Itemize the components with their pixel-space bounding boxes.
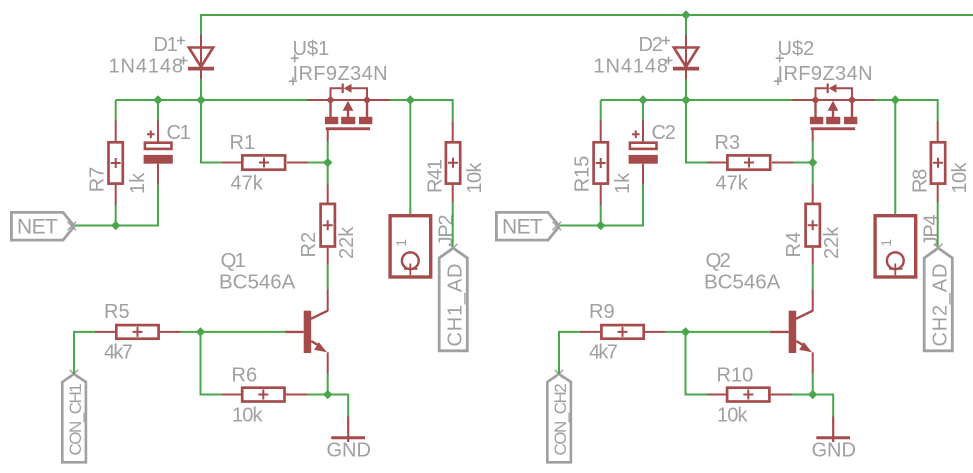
svg-text:1k: 1k xyxy=(612,172,634,194)
ground symbol xyxy=(816,417,850,443)
label D2 value 1N4148 xyxy=(594,56,673,78)
svg-text:10k: 10k xyxy=(949,161,971,193)
wire: rail to R7 xyxy=(115,100,117,121)
resistor R2 22k (vertical) xyxy=(321,185,335,265)
svg-text:R1: R1 xyxy=(230,132,256,154)
svg-text:C2: C2 xyxy=(652,122,676,144)
wire: emitter node to GND xyxy=(328,395,349,418)
label R9 value 4k7 xyxy=(589,342,618,364)
label JP2 name xyxy=(435,214,457,246)
wire: CON_CH1 to R5 xyxy=(74,332,96,374)
wire: R15 to NET rail xyxy=(600,206,602,226)
label Q1 value BC546A xyxy=(219,271,296,294)
label D1 name xyxy=(154,34,186,56)
label R10 name xyxy=(717,365,754,387)
label R9 name xyxy=(589,301,615,323)
junction rail/D1 xyxy=(196,95,205,104)
wire: R5 to base of Q1 xyxy=(181,331,286,333)
svg-text:R15: R15 xyxy=(572,156,594,193)
junction base node xyxy=(681,327,690,336)
label R5 value 4k7 xyxy=(104,342,133,364)
svg-text:NET: NET xyxy=(17,216,58,239)
label JP2 pin 1 xyxy=(393,239,409,247)
svg-text:D2: D2 xyxy=(639,34,663,56)
wire: rail to C1 xyxy=(157,100,159,121)
transistor U$1 IRF9Z34N (P-MOSFET) xyxy=(307,84,390,142)
svg-text:22k: 22k xyxy=(821,226,843,259)
wire: R2 to collector of Q1 xyxy=(327,264,329,290)
junction gate node xyxy=(323,158,332,167)
label R7 name xyxy=(87,167,109,193)
label U$2 name xyxy=(776,38,815,62)
junction top rail / D2 branch xyxy=(681,10,690,19)
wire: rail to R8 xyxy=(936,100,939,122)
svg-text:JP2: JP2 xyxy=(435,214,457,246)
wire: main rail left segment xyxy=(116,99,308,101)
svg-text:47k: 47k xyxy=(231,173,264,195)
resistor R10 10k (horizontal) xyxy=(707,388,792,402)
label U$2 value IRF9Z34N xyxy=(774,63,873,85)
svg-text:D1: D1 xyxy=(154,34,178,56)
label R8 name xyxy=(910,169,932,193)
label Q1 name xyxy=(221,249,246,272)
wire: diode to rail xyxy=(200,79,202,100)
junction NET/R7 xyxy=(111,221,120,230)
svg-text:4k7: 4k7 xyxy=(104,342,133,364)
wire: gate node to R2 xyxy=(327,163,329,186)
wire: main rail right segment xyxy=(390,99,453,101)
svg-text:CON_CH1: CON_CH1 xyxy=(66,384,85,456)
label JP4 name xyxy=(920,214,942,246)
label U$1 name xyxy=(291,38,330,62)
wire: rail to R15 xyxy=(600,100,602,121)
label R3 name xyxy=(715,132,741,154)
label R8 value 10k xyxy=(949,161,971,193)
resistor R15 1k (vertical) xyxy=(594,121,608,206)
junction rail/C2 xyxy=(638,95,647,104)
wire: rail to R41 xyxy=(451,100,454,122)
svg-text:R6: R6 xyxy=(232,365,258,387)
wire: rail to C2 xyxy=(642,100,644,121)
wire: R9 to base of Q2 xyxy=(666,331,771,333)
wire: main rail right segment xyxy=(875,99,938,101)
svg-text:1k: 1k xyxy=(127,172,149,194)
label C1 name xyxy=(167,122,191,144)
transistor Q1 BC546A (NPN) xyxy=(285,290,328,374)
label GND xyxy=(812,440,856,462)
wire: gate to junction xyxy=(812,142,814,163)
net flag CON_CH2 xyxy=(547,370,571,463)
label GND xyxy=(327,440,371,462)
svg-text:C1: C1 xyxy=(167,122,191,144)
svg-text:BC546A: BC546A xyxy=(219,271,296,294)
svg-text:Q1: Q1 xyxy=(221,249,246,272)
svg-text:1: 1 xyxy=(878,239,894,247)
svg-text:1N4148: 1N4148 xyxy=(594,56,669,78)
svg-text:IRF9Z34N: IRF9Z34N xyxy=(778,63,873,85)
svg-text:GND: GND xyxy=(812,440,856,462)
label JP4 pin 1 xyxy=(878,239,894,247)
svg-text:10k: 10k xyxy=(232,405,263,427)
wire: C2 to NET rail xyxy=(642,185,644,227)
resistor R4 22k (vertical) xyxy=(806,185,820,265)
label R15 value 1k xyxy=(612,172,634,194)
net flag NET xyxy=(11,212,76,240)
connector JP2 xyxy=(390,216,431,277)
junction emitter node xyxy=(808,390,817,399)
wire: gate node to R4 xyxy=(812,163,814,186)
label R4 value 22k xyxy=(821,226,843,259)
label R10 value 10k xyxy=(717,405,748,427)
label R41 value 10k xyxy=(464,161,486,193)
wire: rail down to JP2 pin 1 xyxy=(409,100,411,247)
label R4 name xyxy=(783,232,805,258)
label C2 name xyxy=(652,122,676,144)
transistor U$2 IRF9Z34N (P-MOSFET) xyxy=(792,84,875,142)
wire: gate to junction xyxy=(327,142,329,163)
svg-text:1: 1 xyxy=(393,239,409,247)
junction emitter node xyxy=(323,390,332,399)
svg-text:IRF9Z34N: IRF9Z34N xyxy=(293,63,388,85)
label Q2 value BC546A xyxy=(704,271,781,294)
wire: R10 to emitter node xyxy=(792,394,813,396)
wire: rail down to R3 xyxy=(686,100,708,163)
junction gate node xyxy=(808,158,817,167)
svg-text:Q2: Q2 xyxy=(706,249,731,272)
net flag CH1_AD xyxy=(439,244,467,351)
capacitor C1 (polarized) xyxy=(144,121,173,185)
label R7 value 1k xyxy=(127,172,149,194)
capacitor C2 (polarized) xyxy=(629,121,658,185)
svg-text:R2: R2 xyxy=(298,232,320,258)
svg-text:R7: R7 xyxy=(87,167,109,193)
wire: CON_CH2 to R9 xyxy=(559,332,581,374)
svg-text:R4: R4 xyxy=(783,232,805,258)
label R3 value 47k xyxy=(716,173,749,195)
wire: VCC drop to diode D2 xyxy=(685,15,687,36)
wire: VCC top rail xyxy=(201,15,973,35)
svg-text:22k: 22k xyxy=(336,226,358,259)
wire: C1 to NET rail xyxy=(157,185,159,227)
svg-text:CH1_AD: CH1_AD xyxy=(445,263,467,347)
resistor R9 4k7 (horizontal) xyxy=(580,325,666,339)
junction NET/R15 xyxy=(596,221,605,230)
label Q2 name xyxy=(706,249,731,272)
ground symbol xyxy=(331,417,365,443)
label R2 value 22k xyxy=(336,226,358,259)
wire: diode to rail xyxy=(685,79,687,100)
junction base node xyxy=(196,327,205,336)
svg-text:GND: GND xyxy=(327,440,371,462)
svg-text:1N4148: 1N4148 xyxy=(109,56,184,78)
wire: R1 to gate node xyxy=(308,162,328,164)
junction rail/JP4 xyxy=(891,95,900,104)
svg-text:R5: R5 xyxy=(104,301,130,323)
diode D1 1N4148 xyxy=(188,35,214,80)
wire: NET net xyxy=(74,225,159,227)
label R5 name xyxy=(104,301,130,323)
label U$1 value IRF9Z34N xyxy=(289,63,388,85)
label R41 name xyxy=(425,159,447,193)
label R6 name xyxy=(232,365,258,387)
label R2 name xyxy=(298,232,320,258)
svg-text:JP4: JP4 xyxy=(920,214,942,246)
label R6 value 10k xyxy=(232,405,263,427)
svg-text:10k: 10k xyxy=(717,405,748,427)
resistor R41 10k (vertical) xyxy=(446,122,460,203)
svg-text:NET: NET xyxy=(502,216,543,239)
label R15 name xyxy=(572,156,594,193)
svg-text:4k7: 4k7 xyxy=(589,342,618,364)
resistor R6 10k (horizontal) xyxy=(222,388,307,402)
resistor R5 4k7 (horizontal) xyxy=(95,325,181,339)
wire: R41 to CH1_AD flag xyxy=(452,202,454,247)
wire: base node down to R6 xyxy=(201,332,223,395)
resistor R7 1k (vertical) xyxy=(109,121,123,206)
wire: R4 to collector of Q2 xyxy=(812,264,814,290)
wire: rail down to R1 xyxy=(201,100,223,163)
svg-text:10k: 10k xyxy=(464,161,486,193)
resistor R1 47k (horizontal) xyxy=(222,155,308,169)
wire: emitter to emitter node xyxy=(327,374,329,395)
resistor R3 47k (horizontal) xyxy=(707,155,793,169)
net flag CON_CH1 xyxy=(62,370,86,463)
svg-text:CH2_AD: CH2_AD xyxy=(930,263,952,347)
junction rail/D2 xyxy=(681,95,690,104)
label D1 value 1N4148 xyxy=(109,56,188,78)
svg-text:R41: R41 xyxy=(425,159,447,193)
wire: R8 to CH2_AD flag xyxy=(937,202,939,247)
svg-text:47k: 47k xyxy=(716,173,749,195)
svg-text:R10: R10 xyxy=(717,365,754,387)
wire: NET net xyxy=(559,225,644,227)
resistor R8 10k (vertical) xyxy=(931,122,945,203)
svg-text:BC546A: BC546A xyxy=(704,271,781,294)
wire: emitter node to GND xyxy=(813,395,834,418)
svg-text:R3: R3 xyxy=(715,132,741,154)
wire: R3 to gate node xyxy=(793,162,813,164)
transistor Q2 BC546A (NPN) xyxy=(770,290,813,374)
diode D2 1N4148 xyxy=(673,35,699,80)
svg-text:U$2: U$2 xyxy=(778,38,815,60)
wire: VCC drop to diode D1 xyxy=(200,15,202,36)
svg-text:R8: R8 xyxy=(910,169,932,193)
wire: rail down to JP4 pin 1 xyxy=(894,100,896,247)
connector JP4 xyxy=(875,216,916,277)
wire: emitter to emitter node xyxy=(812,374,814,395)
junction rail/C1 xyxy=(153,95,162,104)
wire: main rail left segment xyxy=(601,99,793,101)
label R1 value 47k xyxy=(231,173,264,195)
wire: base node down to R10 xyxy=(686,332,708,395)
junction rail/JP2 xyxy=(406,95,415,104)
wire: R7 to NET rail xyxy=(115,206,117,226)
svg-text:U$1: U$1 xyxy=(293,38,330,60)
net flag CH2_AD xyxy=(924,244,952,351)
label R1 name xyxy=(230,132,256,154)
label D2 name xyxy=(639,34,671,56)
net flag NET xyxy=(496,212,561,240)
svg-text:R9: R9 xyxy=(589,301,615,323)
wire: R6 to emitter node xyxy=(307,394,328,396)
svg-text:CON_CH2: CON_CH2 xyxy=(551,384,570,456)
